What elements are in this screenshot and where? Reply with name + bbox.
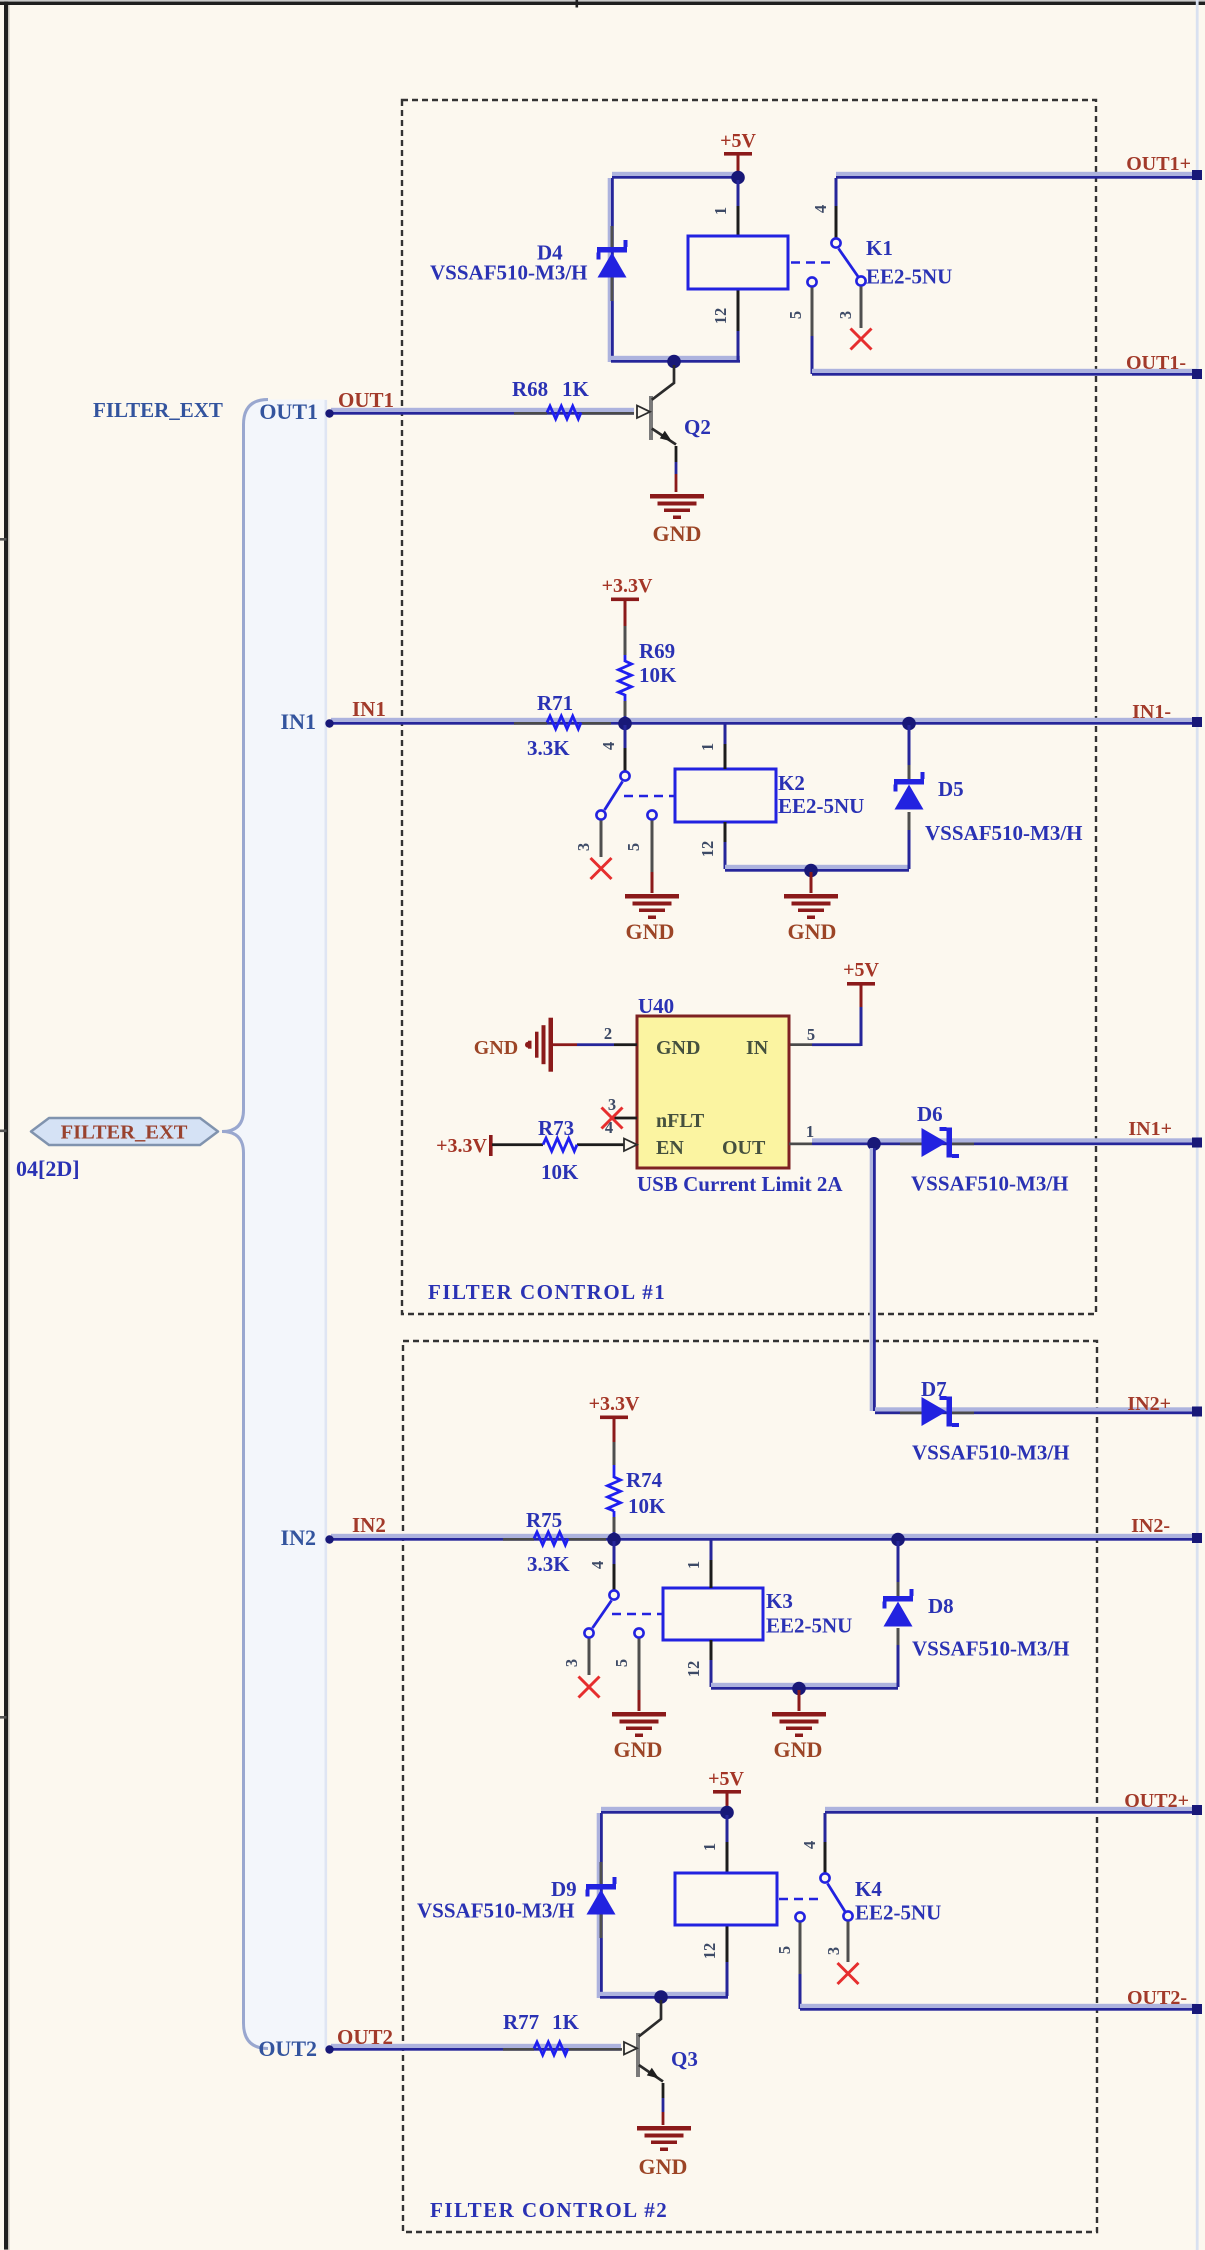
svg-text:IN: IN [746,1037,769,1059]
svg-text:K2: K2 [778,771,805,795]
svg-text:04[2D]: 04[2D] [16,1156,80,1181]
svg-text:10K: 10K [628,1494,666,1518]
svg-text:nFLT: nFLT [656,1110,705,1132]
svg-text:4: 4 [599,742,618,750]
svg-text:+3.3V: +3.3V [436,1135,487,1157]
svg-text:GND: GND [656,1037,700,1059]
svg-text:10K: 10K [639,663,677,687]
svg-text:+5V: +5V [720,130,756,152]
svg-text:1K: 1K [562,377,590,401]
svg-text:12: 12 [698,841,717,858]
svg-text:FILTER_EXT: FILTER_EXT [61,1122,188,1144]
svg-text:3.3K: 3.3K [527,736,570,760]
svg-text:1: 1 [684,1561,703,1569]
svg-text:D8: D8 [928,1594,954,1618]
svg-text:4: 4 [588,1561,607,1569]
svg-text:12: 12 [700,1943,719,1960]
svg-text:5: 5 [624,843,643,851]
svg-text:3: 3 [836,311,855,319]
svg-text:OUT: OUT [722,1137,766,1159]
svg-text:12: 12 [711,308,730,325]
svg-text:D5: D5 [938,777,964,801]
svg-text:VSSAF510-M3/H: VSSAF510-M3/H [911,1172,1069,1196]
svg-text:GND: GND [774,1737,823,1762]
svg-text:GND: GND [788,919,837,944]
svg-text:4: 4 [605,1118,613,1137]
svg-text:4: 4 [811,205,830,213]
svg-text:+5V: +5V [843,959,879,981]
svg-text:USB Current Limit 2A: USB Current Limit 2A [637,1172,843,1196]
svg-text:1: 1 [700,1843,719,1851]
svg-text:R75: R75 [526,1508,562,1532]
svg-text:IN2-: IN2- [1131,1515,1170,1537]
svg-text:10K: 10K [541,1160,579,1184]
svg-text:+3.3V: +3.3V [589,1393,640,1415]
svg-text:OUT2+: OUT2+ [1124,1790,1189,1812]
svg-text:VSSAF510-M3/H: VSSAF510-M3/H [417,1899,575,1923]
svg-text:1: 1 [698,743,717,751]
svg-text:3: 3 [562,1659,581,1667]
svg-text:R74: R74 [626,1468,663,1492]
svg-text:R69: R69 [639,639,675,663]
svg-text:U40: U40 [638,994,674,1018]
svg-text:R68: R68 [512,377,548,401]
svg-text:K4: K4 [855,1877,882,1901]
svg-text:+5V: +5V [708,1768,744,1790]
svg-text:OUT1-: OUT1- [1126,352,1186,374]
svg-text:GND: GND [639,2154,688,2179]
svg-text:5: 5 [807,1025,815,1044]
svg-text:OUT1+: OUT1+ [1126,153,1191,175]
svg-text:VSSAF510-M3/H: VSSAF510-M3/H [912,1441,1070,1465]
svg-text:2: 2 [604,1024,612,1043]
svg-text:K3: K3 [766,1589,793,1613]
svg-text:3.3K: 3.3K [527,1552,570,1576]
svg-text:OUT2: OUT2 [337,2025,393,2049]
svg-text:R71: R71 [537,691,573,715]
svg-text:FILTER_EXT: FILTER_EXT [93,398,223,422]
svg-text:VSSAF510-M3/H: VSSAF510-M3/H [430,261,588,285]
svg-text:IN1-: IN1- [1132,701,1171,723]
svg-text:FILTER CONTROL #1: FILTER CONTROL #1 [428,1280,666,1304]
svg-text:12: 12 [684,1661,703,1678]
svg-text:3: 3 [824,1947,843,1955]
svg-text:EE2-5NU: EE2-5NU [866,265,952,289]
svg-text:3: 3 [608,1095,616,1114]
svg-text:IN1+: IN1+ [1128,1118,1172,1140]
svg-text:GND: GND [474,1037,518,1059]
svg-text:4: 4 [800,1841,819,1849]
svg-text:OUT1: OUT1 [259,399,318,424]
svg-text:Q2: Q2 [684,415,711,439]
svg-text:5: 5 [612,1659,631,1667]
svg-text:1K: 1K [552,2010,580,2034]
svg-text:1: 1 [806,1122,814,1141]
svg-text:IN2: IN2 [281,1525,316,1550]
svg-text:EE2-5NU: EE2-5NU [766,1614,852,1638]
svg-text:R77: R77 [503,2010,539,2034]
svg-text:IN2: IN2 [352,1513,386,1537]
svg-text:3: 3 [574,843,593,851]
svg-text:+3.3V: +3.3V [602,575,653,597]
svg-text:GND: GND [626,919,675,944]
svg-text:EE2-5NU: EE2-5NU [855,1901,941,1925]
svg-text:Q3: Q3 [671,2047,698,2071]
svg-text:IN2+: IN2+ [1127,1393,1171,1415]
svg-text:FILTER CONTROL #2: FILTER CONTROL #2 [430,2198,668,2222]
svg-text:OUT2-: OUT2- [1127,1987,1187,2009]
svg-text:1: 1 [711,207,730,215]
svg-text:D6: D6 [917,1102,943,1126]
svg-text:5: 5 [786,311,805,319]
svg-text:IN1: IN1 [281,709,316,734]
svg-text:K1: K1 [866,236,893,260]
svg-text:D9: D9 [551,1877,577,1901]
svg-text:IN1: IN1 [352,697,386,721]
svg-text:VSSAF510-M3/H: VSSAF510-M3/H [912,1637,1070,1661]
svg-text:R73: R73 [538,1116,574,1140]
svg-text:D7: D7 [921,1377,947,1401]
svg-text:GND: GND [653,521,702,546]
svg-text:EE2-5NU: EE2-5NU [778,794,864,818]
svg-text:OUT2: OUT2 [258,2036,317,2061]
svg-text:5: 5 [775,1946,794,1954]
svg-text:OUT1: OUT1 [338,388,394,412]
svg-text:GND: GND [614,1737,663,1762]
svg-text:EN: EN [656,1137,684,1159]
svg-text:VSSAF510-M3/H: VSSAF510-M3/H [925,821,1083,845]
